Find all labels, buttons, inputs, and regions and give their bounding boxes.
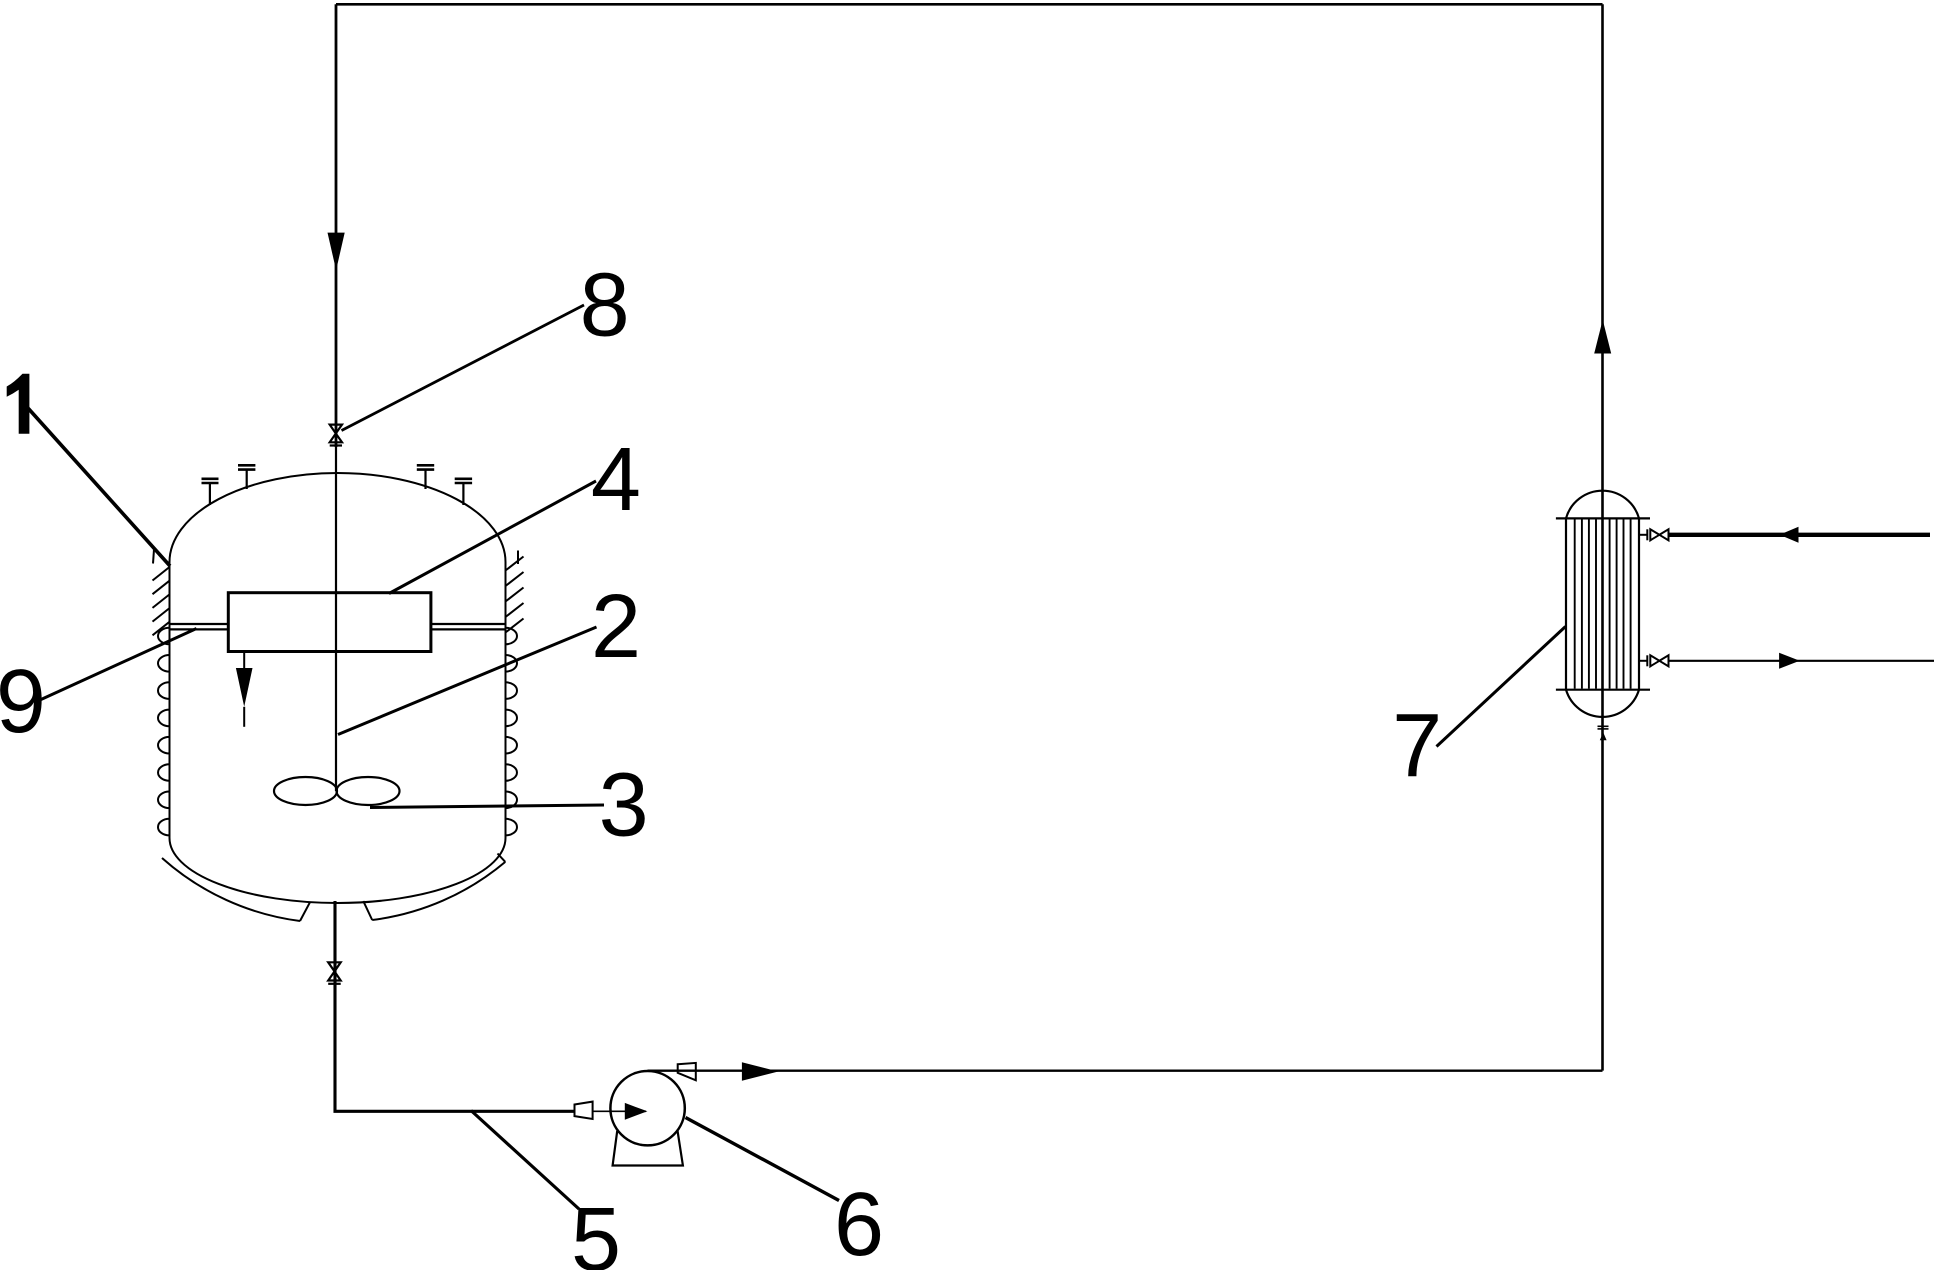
svg-text:6: 6	[834, 1175, 884, 1270]
svg-text:8: 8	[580, 255, 630, 355]
svg-text:2: 2	[591, 577, 641, 677]
svg-text:4: 4	[591, 430, 641, 530]
svg-text:7: 7	[1392, 696, 1442, 796]
svg-text:9: 9	[0, 652, 46, 752]
svg-text:5: 5	[571, 1190, 621, 1270]
svg-text:3: 3	[599, 755, 649, 855]
